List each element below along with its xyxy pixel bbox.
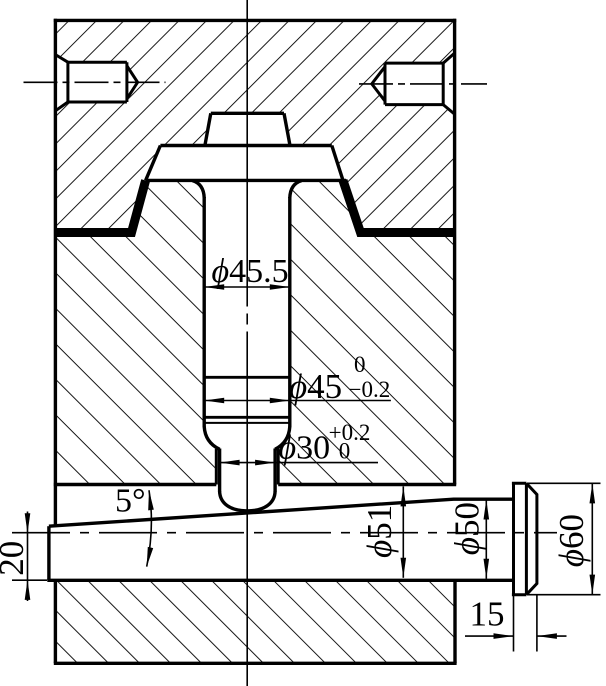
punch shank fillets [193,181,302,198]
bottom plate outline [54,580,457,663]
left set screw [55,55,137,111]
punch nose [220,449,276,492]
dimension phi60 [528,483,601,594]
svg-text:ϕ50: ϕ50 [448,502,487,555]
svg-text:ϕ30: ϕ30 [279,430,331,467]
bottom plate hatching [55,580,455,663]
svg-text:20: 20 [0,541,31,576]
svg-text:−0.2: −0.2 [349,377,391,402]
punch neck [204,427,290,450]
die insert hatching right [278,180,455,484]
svg-text:ϕ51: ϕ51 [360,505,399,558]
svg-text:5°: 5° [115,482,146,519]
die insert hatching left [55,180,216,484]
punch vertical centerline [246,0,248,686]
punch flange [160,144,331,147]
upper block outline [54,19,456,526]
heavy seam line left [55,180,146,232]
svg-text:ϕ45.5: ϕ45.5 [212,253,289,290]
die clearance hole edges [216,449,278,485]
svg-text:0: 0 [339,439,351,464]
svg-text:ϕ60: ϕ60 [552,514,591,567]
svg-text:0: 0 [354,352,366,377]
svg-text:15: 15 [470,595,505,634]
pin head [512,483,537,594]
dimension phi45 0/-0.2 [204,398,391,404]
heavy seam line right [343,180,455,232]
pin horizontal centerline [12,532,557,534]
dimension phi51 [401,486,407,577]
upper holder block hatching [55,20,455,232]
dimension phi45.5 [204,284,290,290]
dimension phi30 +0.2/0 [220,460,378,466]
right set screw [372,53,455,115]
dimension 20 [12,512,47,602]
punch boss [211,112,284,115]
punch outline [146,113,346,511]
tapered wedge pin [47,499,513,580]
right screw centerline [359,83,487,85]
svg-text:ϕ45: ϕ45 [289,367,342,406]
left screw centerline [24,81,166,83]
dimension phi50 [484,500,490,579]
dimension 15 [465,580,567,651]
dimension 5 degrees [147,490,152,566]
punch shank [204,197,290,427]
